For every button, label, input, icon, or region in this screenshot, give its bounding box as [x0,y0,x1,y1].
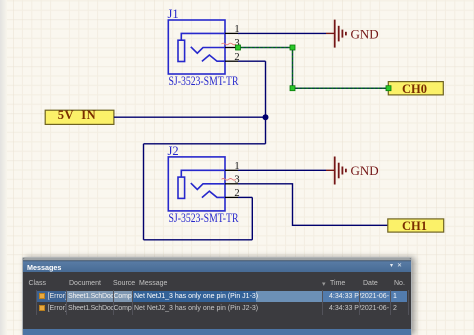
port CH0 [388,82,443,96]
pin J1-1 [225,32,238,34]
svg-text:5V IN: 5V IN [58,108,96,122]
svg-text:J2: J2 [168,144,179,158]
wire 5V_IN to junction [114,116,266,118]
row 2 [23,303,411,314]
wire to left [144,143,266,145]
wire net J2_3 to CH1 [238,184,388,226]
connector J2 [168,157,225,211]
error squiggle at pin J1-3 [222,43,236,45]
wire left vertical [143,144,145,240]
wire J1-2 horizontal [238,60,266,62]
ground GND (top) [326,20,379,48]
row 1 selected [23,291,411,302]
junction 5V net [263,114,269,120]
connector J1 [168,20,225,74]
svg-text:GND: GND [351,163,379,178]
port 5V_IN [45,108,114,124]
wire J1-1 to GND [238,32,326,34]
wire bottom horizontal [144,239,253,241]
Messages panel [22,257,412,335]
pin J2-1 [225,169,238,171]
pin J1-2 [225,60,238,62]
wire net J1_3 to CH0 (selected) [238,48,388,89]
svg-text:2: 2 [234,188,239,199]
wire into J2-2 [238,196,252,198]
column separator lines [36,290,37,315]
port CH1 [388,219,444,233]
svg-text:GND: GND [351,26,379,41]
wire J2-1 to GND [238,169,326,171]
svg-text:SJ-3523-SMT-TR: SJ-3523-SMT-TR [169,211,240,225]
wire vertical J1-2 down [265,61,267,144]
svg-text:CH0: CH0 [402,82,427,96]
pin J1-3 [225,47,238,49]
error squiggle at pin J2-3 [222,179,236,181]
pin J2-2 [225,196,238,198]
selection vertex squares [236,45,392,91]
wire up to J2-2 [251,197,253,239]
svg-text:SJ-3523-SMT-TR: SJ-3523-SMT-TR [169,74,240,88]
pin J2-3 [225,183,238,185]
svg-text:CH1: CH1 [402,219,427,233]
svg-text:J1: J1 [168,7,179,21]
ground GND (bottom) [326,157,379,185]
